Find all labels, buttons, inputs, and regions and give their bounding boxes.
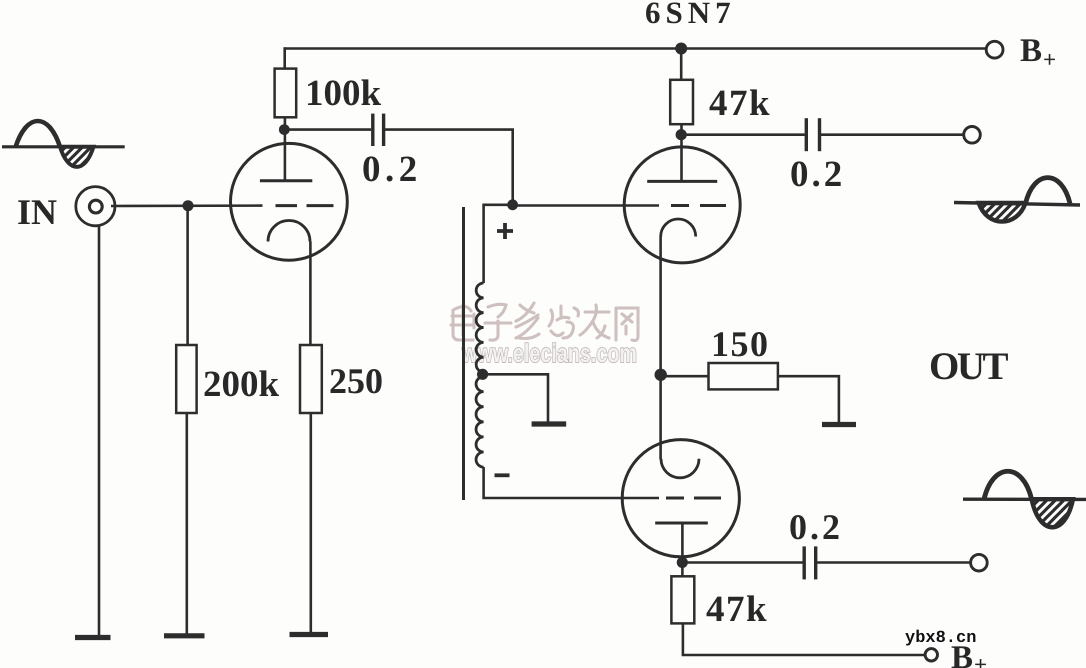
tube V2 envelope: [624, 147, 740, 263]
node V3 / C3 / R6: [677, 557, 688, 568]
V1 plate: [260, 179, 312, 182]
V3 grid dashes: [666, 497, 721, 500]
ground IN: [75, 635, 111, 640]
ground center tap: [532, 421, 567, 426]
wire top rail to R1 100k: [283, 47, 286, 68]
svg-text:+: +: [1043, 47, 1056, 72]
resistor R6 47k body: [671, 576, 694, 623]
node R4 / C2: [676, 129, 687, 140]
wire node to C2: [681, 133, 805, 136]
svg-text:www.elecians.com: www.elecians.com: [461, 338, 637, 368]
node B+ rail / R4: [675, 43, 687, 55]
V1 cathode arc: [268, 221, 310, 242]
svg-text:0.2: 0.2: [789, 507, 843, 547]
resistor R2 200k body: [176, 345, 196, 413]
svg-text:6SN7: 6SN7: [645, 0, 736, 30]
transformer winding lower: [476, 377, 484, 468]
node junction R1 / C1: [279, 124, 290, 135]
node transformer plus: [507, 199, 518, 210]
svg-text:150: 150: [711, 324, 770, 364]
svg-text:OUT: OUT: [929, 345, 1009, 388]
node IN junction: [183, 200, 194, 211]
wire B+ top rail: [285, 47, 987, 50]
node cathode / R5: [655, 369, 667, 381]
V1 grid dashes: [276, 204, 334, 207]
label plus: [497, 223, 513, 239]
transformer winding upper: [476, 283, 483, 372]
wire center tap to ground: [483, 374, 548, 422]
wire IN to grid of V1: [111, 204, 263, 207]
V2 grid dashes: [671, 204, 726, 207]
svg-text:ybx8.cn: ybx8.cn: [905, 629, 976, 648]
wire junction down to R2: [186, 206, 189, 345]
node center tap: [477, 369, 488, 380]
wire plus node to winding top: [484, 205, 513, 283]
svg-text:250: 250: [329, 361, 383, 401]
wire node to R5: [661, 375, 709, 378]
capacitor C3 0.2 plates: [804, 546, 816, 579]
wire rail to R4: [680, 49, 683, 80]
V2 plate: [647, 180, 717, 183]
svg-text:100k: 100k: [305, 73, 382, 114]
terminal B+ bottom: [925, 649, 937, 661]
wire R3 to ground: [309, 413, 312, 634]
wire transformer plus node to V2 grid: [513, 204, 659, 207]
connector IN outer circle: [76, 187, 115, 226]
ground R3: [290, 632, 329, 637]
svg-text:47k: 47k: [709, 83, 771, 124]
connector IN inner circle: [89, 200, 102, 213]
wire node to C3: [682, 561, 802, 564]
svg-text:200k: 200k: [203, 364, 280, 405]
resistor R4 47k body: [670, 80, 693, 124]
svg-text:+: +: [974, 652, 987, 668]
capacitor C1 0.2 plates: [373, 114, 384, 146]
wire V2 cathode down to V3 cathode: [659, 237, 662, 460]
wire C3 to output terminal bottom: [817, 561, 971, 564]
wire R5 to ground: [778, 376, 839, 422]
wire V1 cathode to R3: [309, 242, 312, 346]
wire R1 bottom lead to tube V1 plate: [284, 117, 287, 181]
wire R4 to V2 plate: [680, 124, 683, 181]
svg-text:IN: IN: [17, 192, 57, 232]
terminal B+ top: [986, 41, 1003, 58]
capacitor C2 0.2 plates: [806, 118, 819, 151]
sine wave input symbol: [2, 121, 125, 167]
wire R6 to B+ bottom: [683, 623, 925, 655]
wire C1 to transformer plus node: [384, 130, 513, 205]
resistor R3 250 body: [300, 345, 322, 413]
ground R2: [164, 633, 205, 638]
svg-text:0.2: 0.2: [790, 154, 845, 195]
terminal output top: [964, 127, 981, 144]
wire R2 to ground: [186, 413, 189, 636]
terminal output bottom: [971, 554, 988, 571]
wire C2 to output terminal top: [821, 133, 964, 136]
tube V1 envelope: [231, 143, 348, 260]
wire winding bottom to V3 grid: [484, 467, 659, 498]
svg-text:47k: 47k: [706, 589, 768, 630]
watermark 电子发烧友网 www.elecians.com: [451, 303, 638, 341]
V2 cathode arc: [661, 219, 696, 237]
svg-text:0.2: 0.2: [362, 149, 422, 190]
resistor R5 150 body: [709, 363, 778, 389]
wire IN shield down: [98, 225, 101, 637]
wire V3 plate to node: [681, 523, 684, 576]
V3 plate: [655, 522, 708, 525]
V3 cathode arc: [661, 459, 699, 478]
sine wave output top: [954, 178, 1080, 222]
tube V3 envelope: [622, 440, 739, 557]
wire junction to C1: [285, 128, 372, 131]
resistor R1 100k body: [275, 69, 297, 118]
sine wave output bottom: [963, 471, 1086, 527]
svg-text:B: B: [1020, 33, 1042, 69]
label minus: [495, 473, 510, 477]
transformer core: [462, 207, 465, 500]
ground R5: [822, 422, 856, 427]
